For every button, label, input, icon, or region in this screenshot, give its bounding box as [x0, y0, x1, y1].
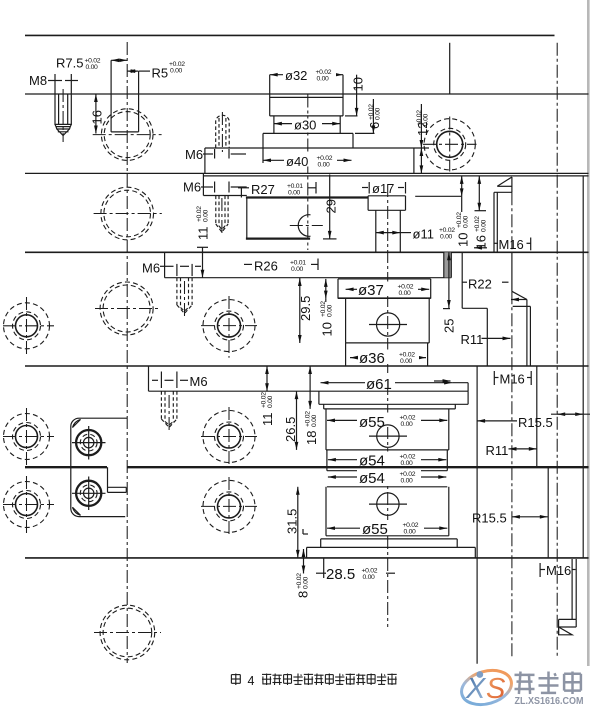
vertical edge x487.3	[486, 308, 488, 366]
svg-text:R27: R27	[251, 182, 275, 197]
svg-text:0.00: 0.00	[400, 358, 413, 365]
watermark text zi liao wang	[515, 672, 581, 695]
svg-text:0.00: 0.00	[481, 219, 488, 232]
threaded circle mid row1	[201, 296, 257, 358]
dimension R11 lower	[486, 443, 537, 458]
svg-text:ø30: ø30	[294, 118, 316, 133]
M8 label	[29, 73, 78, 94]
svg-text:6: 6	[367, 122, 382, 129]
centerline V1	[126, 42, 128, 663]
dimension R15.5 bottom	[472, 511, 548, 526]
svg-text:11: 11	[196, 227, 211, 241]
threaded circle left row1	[3, 297, 54, 354]
M16 label top	[495, 237, 531, 252]
svg-text:0.00: 0.00	[318, 162, 331, 169]
bottom dashed circle	[94, 605, 161, 660]
svg-text:ø37: ø37	[358, 282, 384, 299]
phi55 block upper	[326, 409, 449, 450]
svg-text:R26: R26	[254, 259, 278, 274]
dimension 29.5	[298, 278, 313, 343]
svg-text:R15.5: R15.5	[518, 415, 553, 430]
boss phi32 section	[270, 94, 343, 116]
bar0 left edge	[204, 148, 206, 173]
dimension R26	[244, 259, 318, 274]
svg-text:0.00: 0.00	[303, 576, 310, 589]
dimension R7.5	[56, 56, 127, 95]
threaded circle left row2	[3, 408, 54, 465]
bar3 outline	[148, 366, 150, 391]
svg-text:0.00: 0.00	[423, 113, 430, 126]
parting line H7 right	[127, 466, 588, 468]
dimension 10 mid	[320, 279, 335, 337]
dimension R27	[238, 182, 316, 198]
vertical edge x477	[476, 366, 478, 664]
svg-text:M16: M16	[499, 237, 524, 252]
watermark logo swoosh	[458, 665, 516, 710]
svg-text:0.00: 0.00	[203, 209, 210, 222]
pocket R27 bottom bold line	[246, 237, 310, 239]
dimension 18	[304, 366, 319, 445]
svg-text:0.00: 0.00	[440, 234, 453, 241]
sprue bushing head	[368, 196, 405, 211]
svg-text:M6: M6	[183, 180, 201, 195]
plate line H4	[25, 251, 589, 253]
M16 latch top	[494, 177, 512, 252]
caption: tu 4 haitian jiangyou gai shang gai mopei jishu yaoqiu	[231, 674, 396, 689]
dimension 29	[323, 175, 339, 239]
svg-text:R11: R11	[486, 443, 509, 458]
phi61 block	[319, 391, 468, 404]
phi61 dimension	[321, 375, 469, 394]
svg-text:0.00: 0.00	[404, 529, 417, 536]
M16 label bottom	[540, 563, 575, 578]
svg-text:ZL.XS1616.COM: ZL.XS1616.COM	[515, 695, 584, 707]
latch chamfer mid	[511, 252, 530, 366]
dimension 31.5	[285, 487, 309, 558]
grey bar	[444, 252, 452, 277]
plate bottom line H8	[25, 557, 589, 559]
M6 stud top dashed	[216, 112, 230, 152]
step tick y210.7 right	[475, 210, 487, 212]
svg-text:0.00: 0.00	[86, 64, 99, 71]
dimension 26.5	[283, 391, 298, 450]
svg-text:10: 10	[320, 322, 335, 336]
M6 screw3 dashed	[177, 278, 192, 318]
dimension R11 upper	[461, 332, 511, 347]
svg-text:R7.5: R7.5	[56, 56, 83, 71]
base step1	[307, 539, 476, 548]
svg-text:0.00: 0.00	[291, 266, 304, 273]
dimension 6	[355, 99, 382, 133]
pocket top-left	[111, 94, 139, 132]
centerline boss V2b	[307, 95, 309, 251]
phi55 block lower	[326, 487, 449, 536]
dimension phi32	[270, 66, 343, 94]
plate line H2	[25, 93, 589, 95]
plate line H3b	[203, 175, 588, 177]
svg-text:0.00: 0.00	[327, 304, 334, 317]
lock screw circle upper	[72, 426, 106, 460]
svg-text:11: 11	[260, 413, 275, 427]
svg-text:0.00: 0.00	[170, 68, 183, 75]
dimension R22	[462, 277, 509, 292]
M8 screw	[55, 89, 71, 142]
core block mid	[346, 299, 430, 343]
phi54 band2	[327, 486, 447, 488]
step line y308.3	[462, 307, 487, 309]
svg-text:10: 10	[351, 77, 366, 91]
svg-text:M16: M16	[546, 563, 571, 578]
dimension 28.5	[316, 558, 395, 583]
dimension 12	[415, 104, 430, 173]
phi55 core pin circle	[369, 425, 407, 447]
phi54 dimension 2	[328, 469, 446, 487]
svg-text:16: 16	[90, 110, 105, 124]
svg-text:28.5: 28.5	[326, 566, 355, 583]
svg-text:29.5: 29.5	[298, 296, 313, 321]
grey bar arrow	[474, 247, 487, 249]
pocket R27 top bold line	[246, 196, 368, 198]
svg-text:18: 18	[304, 431, 319, 445]
bar2 outline	[165, 252, 452, 277]
center dashed circle row3	[95, 282, 158, 335]
phi54 dimension 1	[328, 452, 446, 470]
dimension 10 right	[456, 176, 471, 247]
svg-text:R11: R11	[461, 332, 484, 347]
svg-text:ø32: ø32	[285, 68, 307, 83]
M16 label mid	[434, 371, 531, 387]
phi36 flange	[346, 343, 428, 366]
svg-text:M6: M6	[190, 374, 208, 389]
top-right vertical tick	[449, 43, 451, 94]
svg-text:ø17: ø17	[372, 181, 394, 196]
svg-text:ø54: ø54	[359, 470, 385, 487]
M6 screw2 dashed	[216, 196, 228, 237]
dimension 11 lower	[260, 366, 275, 426]
phi37 dimension	[346, 282, 430, 300]
vertical edge x548.2	[547, 467, 549, 558]
left block slot	[108, 467, 127, 492]
dimension 11 top	[196, 206, 211, 278]
phi37 ring block	[338, 279, 431, 299]
svg-text:8: 8	[296, 591, 311, 598]
svg-text:0.00: 0.00	[399, 290, 412, 297]
svg-text:29: 29	[324, 199, 339, 213]
svg-text:M16: M16	[500, 372, 525, 387]
svg-text:R22: R22	[468, 277, 492, 292]
svg-text:26.5: 26.5	[283, 417, 298, 442]
plate line H5	[25, 365, 589, 367]
guide hole circle second	[94, 187, 162, 240]
dimension phi11	[376, 227, 455, 242]
svg-text:25: 25	[442, 319, 457, 333]
dimension 16 top-left	[90, 94, 105, 134]
dimension phi17	[362, 181, 406, 196]
groove semicircle	[290, 215, 323, 237]
svg-text:M6: M6	[185, 147, 203, 162]
svg-text:R5: R5	[152, 66, 169, 81]
svg-text:R15.5: R15.5	[472, 511, 507, 526]
dimension 8	[296, 549, 311, 598]
dimension R15.5 top	[477, 414, 590, 430]
svg-text:31.5: 31.5	[285, 509, 300, 534]
centerline M16 latch V5	[511, 192, 513, 252]
dimension 16 right	[474, 176, 489, 250]
guide hole circle top-right	[423, 117, 477, 172]
svg-text:ø55: ø55	[362, 521, 388, 538]
centerline V2 lower part	[387, 184, 389, 627]
svg-text:0.00: 0.00	[401, 460, 414, 467]
svg-text:0.00: 0.00	[311, 414, 318, 427]
boss phi30 section	[263, 116, 353, 133]
base step2	[307, 547, 476, 558]
svg-text:ø40: ø40	[286, 154, 308, 169]
lock screw circle lower	[72, 477, 106, 511]
svg-text:0.00: 0.00	[401, 478, 414, 485]
svg-text:ø11: ø11	[413, 227, 434, 242]
step under phi61	[324, 404, 456, 409]
svg-text:ø36: ø36	[359, 350, 385, 367]
svg-text:M8: M8	[29, 73, 47, 88]
phi55 dimension lower	[327, 520, 447, 538]
svg-text:0.00: 0.00	[288, 190, 301, 197]
dimension phi40	[263, 153, 352, 170]
threaded circle mid row3	[201, 477, 257, 536]
svg-text:4: 4	[248, 674, 255, 688]
phi36 dimension	[350, 350, 426, 368]
M6 label D	[152, 372, 208, 390]
guide hole circle top-left	[93, 109, 162, 161]
svg-text:ø55: ø55	[359, 414, 385, 431]
plate line H3	[25, 172, 589, 174]
insert plate right edge	[413, 148, 415, 173]
threaded circle mid row2	[201, 407, 257, 466]
phi55 dimension upper	[327, 413, 447, 432]
svg-text:0.00: 0.00	[375, 107, 382, 120]
bottom right latch	[559, 559, 577, 635]
M6 label C	[142, 261, 201, 277]
phi54 band1	[327, 450, 447, 471]
svg-text:M6: M6	[142, 261, 160, 276]
dimension 10 top	[345, 75, 366, 116]
dimension 25	[442, 252, 457, 333]
M6 screw4 dashed	[161, 391, 177, 432]
parting line H7 left heavy	[25, 466, 107, 468]
right grey page border	[587, 0, 590, 666]
dimension phi30	[274, 118, 340, 133]
dimension R5	[127, 61, 185, 94]
threaded circle left row3	[3, 476, 54, 533]
plate line H6	[149, 390, 469, 392]
vertical edge V6	[582, 176, 584, 558]
svg-text:0.00: 0.00	[401, 421, 414, 428]
left latch block	[71, 418, 127, 516]
svg-text:0.00: 0.00	[267, 395, 274, 408]
vertical edge x536.8	[536, 366, 538, 467]
svg-text:10: 10	[456, 233, 471, 247]
bar1 outline	[203, 173, 246, 195]
pocket R27 left edge	[246, 198, 248, 239]
plate top line H1	[25, 34, 555, 36]
svg-text:0.00: 0.00	[317, 76, 330, 83]
svg-text:0.00: 0.00	[363, 574, 376, 581]
step line y196.3 right	[415, 195, 462, 197]
boss phi40 flange	[205, 133, 429, 163]
centerline V4 right	[556, 43, 558, 658]
vertical edge x462.2	[461, 252, 463, 308]
M6 label B	[183, 180, 247, 195]
svg-text:0.00: 0.00	[463, 215, 470, 228]
svg-text:ø61: ø61	[366, 376, 392, 393]
sprue stem phi11	[376, 210, 401, 252]
svg-text:X: X	[465, 673, 487, 705]
M6 label A	[185, 147, 246, 162]
svg-text:S: S	[486, 673, 506, 705]
svg-text:ø54: ø54	[359, 453, 385, 470]
